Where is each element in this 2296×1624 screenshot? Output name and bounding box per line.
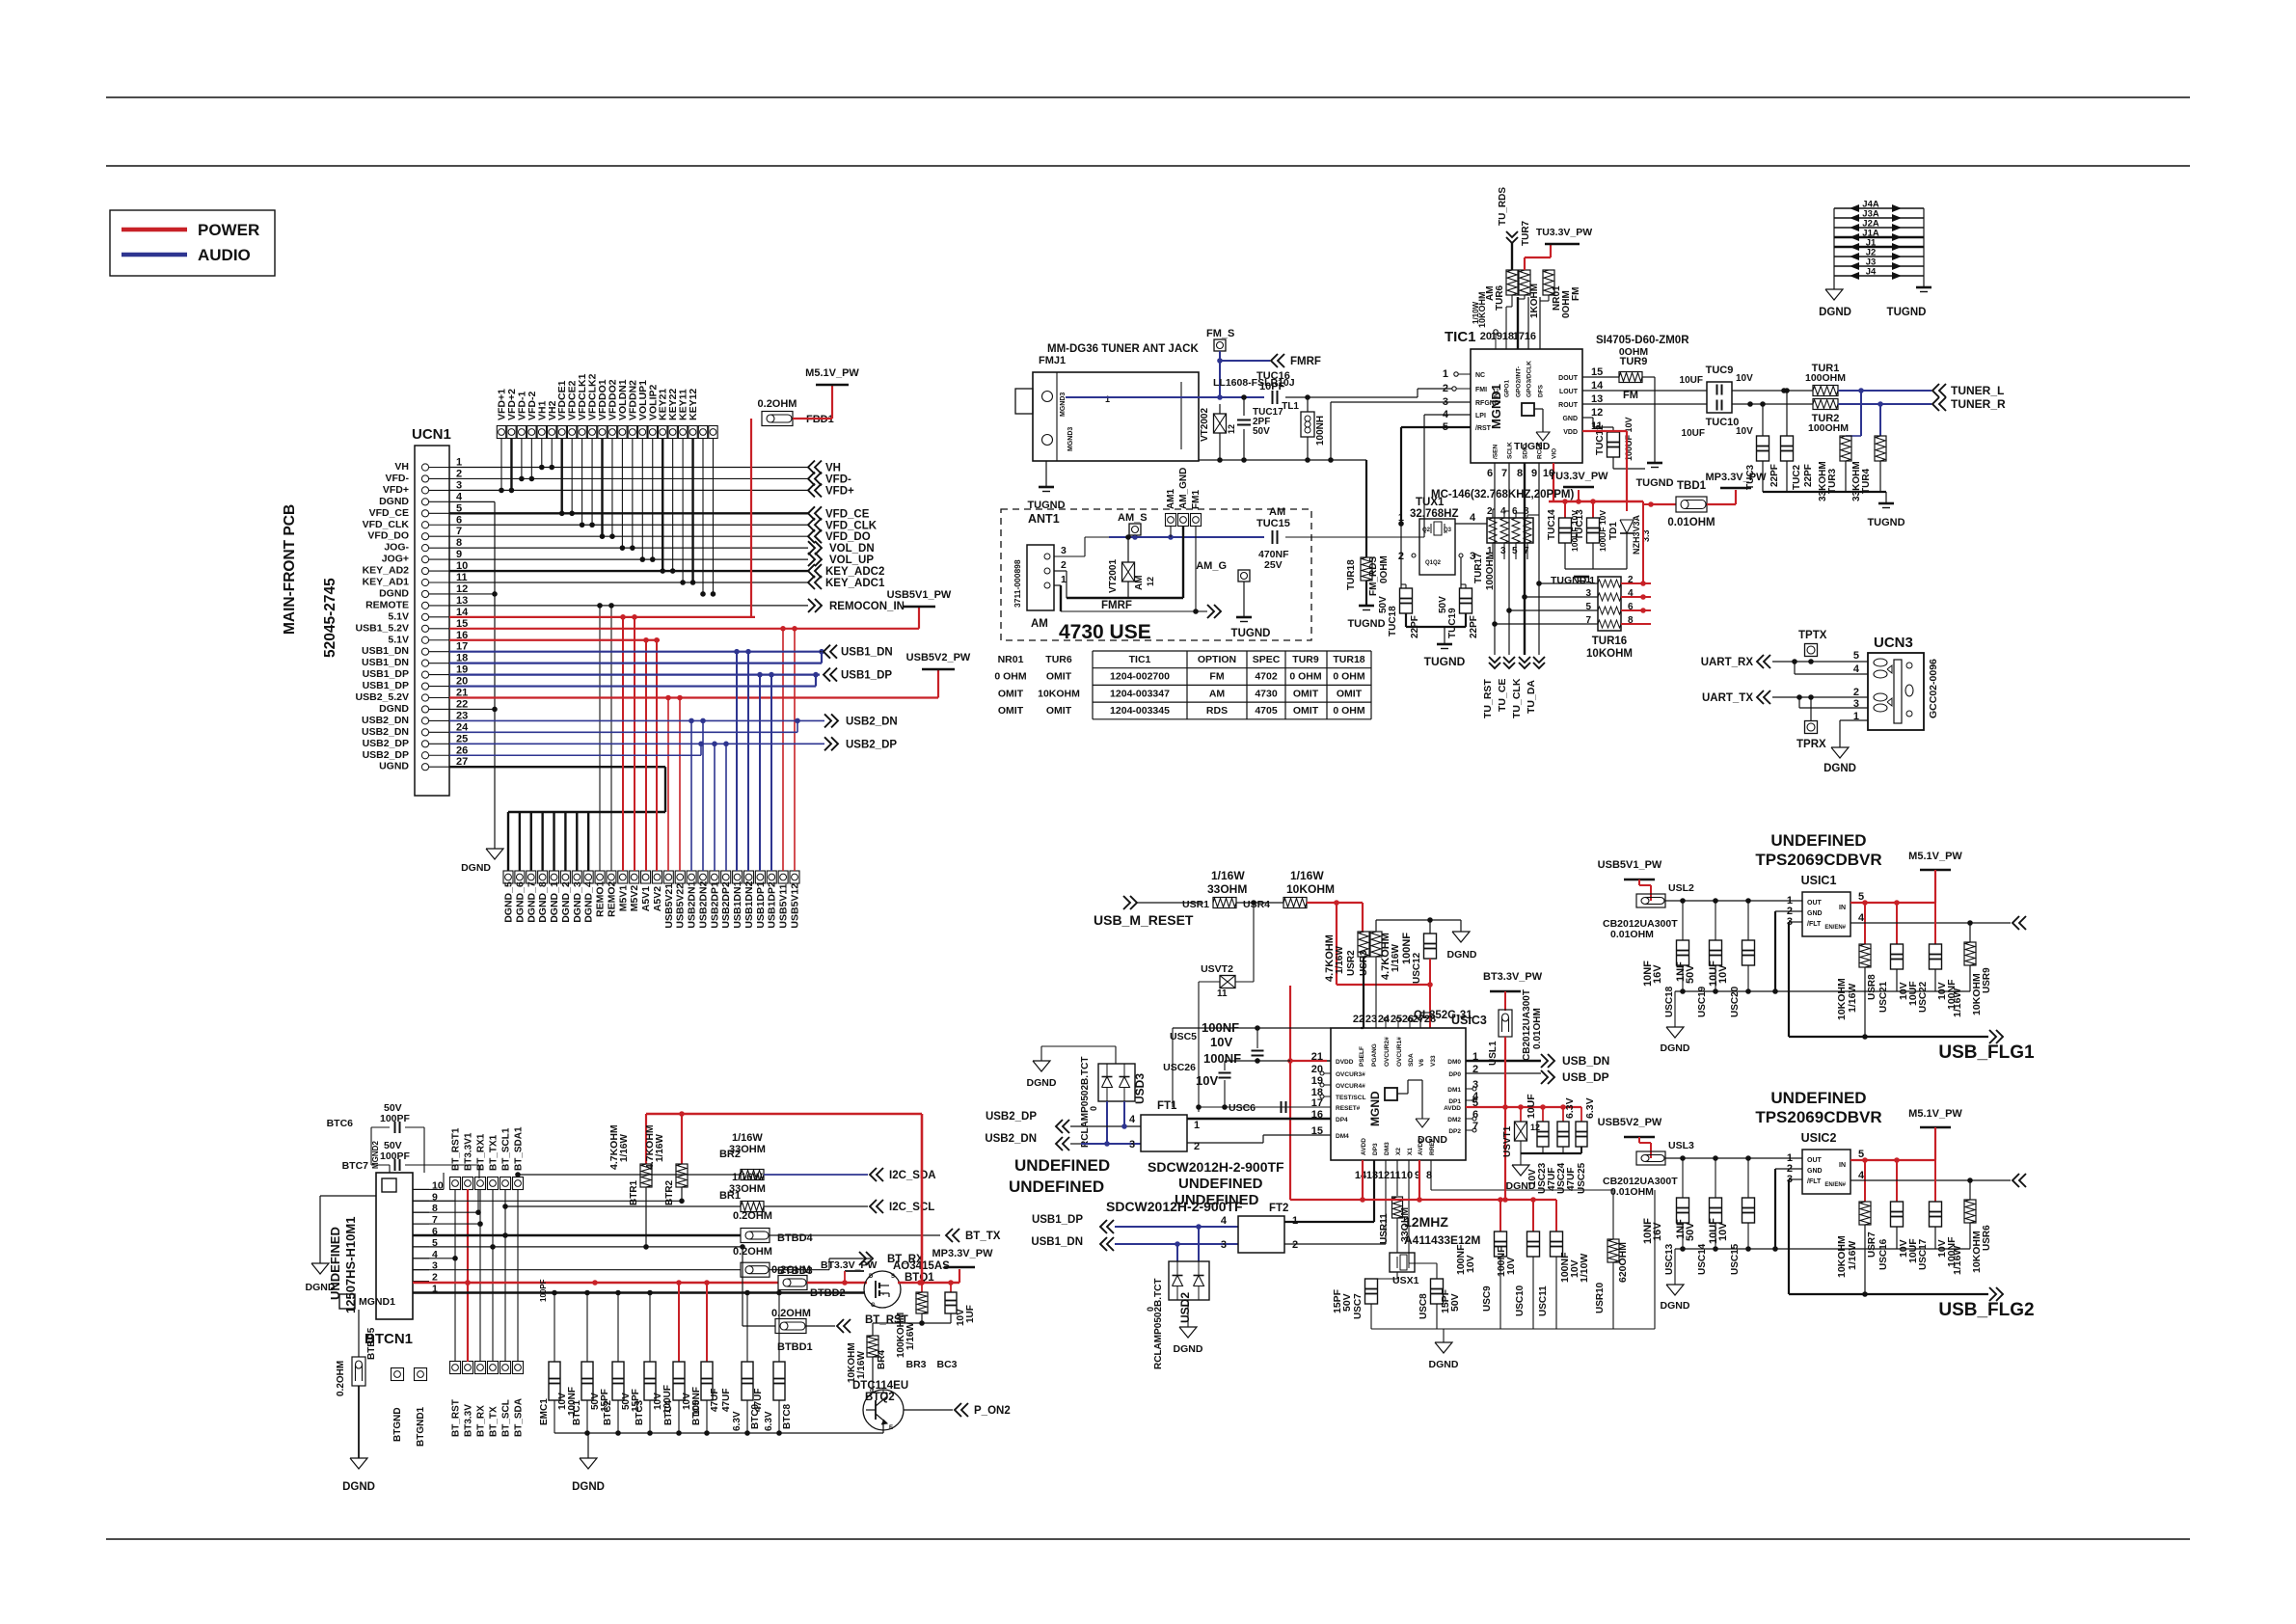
svg-text:DM4: DM4 <box>1336 1133 1349 1140</box>
ground rail USIC1 <box>1675 990 1970 992</box>
capacitor EMC1 <box>549 1362 560 1400</box>
svg-text:100PF: 100PF <box>380 1150 411 1162</box>
svg-text:AM: AM <box>1031 618 1048 630</box>
diode USVT1 <box>1520 1107 1522 1122</box>
svg-text:TUGND: TUGND <box>1867 517 1904 528</box>
power wire USR4 to USR2/3 <box>1307 902 1363 904</box>
capacitor USC10 100NF 10V <box>1527 1232 1540 1257</box>
svg-text:2: 2 <box>1487 506 1493 517</box>
svg-text:MM-DG36 TUNER ANT JACK: MM-DG36 TUNER ANT JACK <box>1047 343 1199 355</box>
junctions BT columns <box>452 1256 458 1261</box>
svg-text:100NF: 100NF <box>1401 933 1413 964</box>
top pin header row of UCN1 fan-out <box>497 426 505 439</box>
ground DGND bt rail <box>587 1433 589 1458</box>
wires top header to UCN1 rows <box>500 439 502 491</box>
svg-text:1UF: 1UF <box>965 1305 976 1323</box>
IC USIC1 body <box>1802 892 1850 936</box>
svg-text:DP0: DP0 <box>1448 1071 1461 1078</box>
svg-text:MAIN-FRONT PCB: MAIN-FRONT PCB <box>282 504 298 635</box>
svg-text:UCN1: UCN1 <box>412 426 451 443</box>
IC TIC1 SI4705 body <box>1471 349 1582 463</box>
J4A left rail to DGND <box>1833 208 1835 289</box>
svg-text:3: 3 <box>1129 1139 1135 1150</box>
svg-text:USIC2: USIC2 <box>1801 1131 1837 1145</box>
svg-text:4.7KOHM: 4.7KOHM <box>1324 934 1336 982</box>
capacitor USC12 100NF <box>1424 934 1437 959</box>
svg-text:1/16W: 1/16W <box>856 1351 867 1379</box>
svg-text:AVDD: AVDD <box>1444 1105 1461 1112</box>
option table grid <box>1093 650 1371 652</box>
svg-text:KEY12: KEY12 <box>688 389 699 420</box>
svg-text:BT_SDA1: BT_SDA1 <box>514 1126 525 1171</box>
wire ROUT to TUC10 <box>1582 403 1707 405</box>
svg-text:I2C_SCL: I2C_SCL <box>889 1202 934 1213</box>
wire BTCN1 pin5 row <box>413 1246 743 1248</box>
svg-text:BT_SCL: BT_SCL <box>501 1399 512 1437</box>
UCN1 pin circles <box>421 464 428 471</box>
audio stub to TUR4 <box>1879 404 1881 436</box>
svg-text:USB2DP2: USB2DP2 <box>720 881 732 929</box>
svg-text:OVCUR4#: OVCUR4# <box>1336 1083 1365 1090</box>
chevron KEY_ADC1 <box>808 576 815 589</box>
svg-text:AM1: AM1 <box>1166 488 1176 509</box>
red column wires USB5V11 USB5V12 <box>782 629 784 871</box>
svg-text:ROUT: ROUT <box>1558 402 1579 409</box>
svg-text:5: 5 <box>1512 546 1518 556</box>
svg-text:25V: 25V <box>1264 559 1283 571</box>
power wire BTQ1 out <box>898 1282 959 1285</box>
svg-text:Q2: Q2 <box>1422 528 1431 533</box>
wire BTCN1 pins 8,9,10 stubs <box>413 1211 478 1213</box>
svg-text:USC14: USC14 <box>1697 1243 1708 1275</box>
test pad TPTX <box>1805 644 1818 657</box>
svg-text:USIC3: USIC3 <box>1451 1014 1487 1027</box>
svg-text:SPEC: SPEC <box>1253 654 1281 665</box>
capacitor TUC14 100UF 10V <box>1564 501 1566 518</box>
svg-text:4702: 4702 <box>1255 671 1278 683</box>
svg-text:VFD_CE: VFD_CE <box>369 507 409 519</box>
svg-text:USC8: USC8 <box>1418 1293 1429 1319</box>
svg-text:VFD_CLK: VFD_CLK <box>363 519 410 530</box>
node REMOCON_IN row <box>449 605 808 607</box>
svg-text:6.3V: 6.3V <box>1564 1097 1576 1119</box>
svg-text:0.2OHM: 0.2OHM <box>771 1264 811 1276</box>
wire USD3 top to DGND <box>1115 1046 1117 1064</box>
svg-text:2: 2 <box>456 468 462 479</box>
svg-text:OPTION: OPTION <box>1198 654 1236 665</box>
transistor BTQ1 AO3415AS <box>864 1271 901 1308</box>
svg-text:USB1_DP: USB1_DP <box>363 668 409 680</box>
UCN3 internals <box>1894 660 1902 723</box>
wire USR3 top net to DGND <box>1375 920 1377 932</box>
svg-text:DGND_2: DGND_2 <box>560 881 572 923</box>
svg-text:USR7: USR7 <box>1867 1232 1877 1258</box>
svg-text:USB_DP: USB_DP <box>1562 1070 1609 1084</box>
svg-text:TIC1: TIC1 <box>1129 654 1151 665</box>
svg-text:VDD: VDD <box>1563 429 1578 436</box>
svg-text:OMIT: OMIT <box>998 688 1024 699</box>
svg-text:0 OHM: 0 OHM <box>1333 671 1365 683</box>
svg-text:USB1DN2: USB1DN2 <box>743 880 755 928</box>
power wire VDD red to bus <box>1582 430 1627 432</box>
power wire red bus to DVDD <box>1337 984 1430 986</box>
svg-text:GPO3/DCLK: GPO3/DCLK <box>1526 361 1533 397</box>
resistor TUR1 100OHM <box>1813 386 1838 396</box>
svg-text:BT_RST1: BT_RST1 <box>451 1127 462 1171</box>
svg-text:100NF: 100NF <box>1455 1244 1467 1275</box>
svg-text:USB_M_RESET: USB_M_RESET <box>1094 912 1194 928</box>
power wire USB2_5.2V row21 to USB5V2_PW <box>449 696 938 698</box>
resistor TUR4 33KOHM <box>1875 436 1886 461</box>
svg-text:10KOHM: 10KOHM <box>1038 688 1080 699</box>
capacitor TUC9 10UF 10V <box>1707 382 1732 413</box>
svg-text:BTC2: BTC2 <box>603 1399 613 1425</box>
svg-text:OVCUR2#: OVCUR2# <box>1384 1037 1391 1067</box>
svg-text:BT_TX: BT_TX <box>965 1231 1001 1242</box>
svg-text:DGND: DGND <box>379 703 409 715</box>
capacitor USC15 <box>1747 1158 1749 1198</box>
svg-text:USC19: USC19 <box>1697 986 1708 1017</box>
power wire BTBD2 to BTQ1 <box>807 1282 867 1285</box>
ground rail USIC2 <box>1675 1248 1970 1250</box>
svg-text:BTR2: BTR2 <box>664 1179 675 1205</box>
svg-text:EN/EN#: EN/EN# <box>1824 925 1846 931</box>
UCN1 signal rows to chevrons <box>449 467 808 469</box>
svg-text:UGND: UGND <box>379 761 409 772</box>
wire AM_GND down <box>1182 526 1184 598</box>
svg-text:1KOHM: 1KOHM <box>1529 284 1540 318</box>
svg-text:USC15: USC15 <box>1730 1243 1741 1275</box>
svg-text:USX1: USX1 <box>1392 1275 1419 1286</box>
power long red to BTR resistors <box>646 1113 922 1116</box>
svg-text:0.2OHM: 0.2OHM <box>758 398 797 410</box>
svg-text:USVT2: USVT2 <box>1201 963 1233 975</box>
svg-text:OMIT: OMIT <box>1337 688 1363 699</box>
red column wires A5V1 A5V2 <box>645 640 647 871</box>
svg-text:10V: 10V <box>1196 1073 1218 1088</box>
capacitor TUC17 2PF 50V <box>1243 397 1245 416</box>
crystal TUX1 body <box>1419 519 1455 575</box>
wire USR2 bottom to pin22 <box>1363 957 1364 1028</box>
svg-text:1/16W: 1/16W <box>619 1134 630 1162</box>
BTCN1 pins <box>413 1292 429 1294</box>
svg-text:TU_CE: TU_CE <box>1497 679 1508 712</box>
svg-text:1/16W: 1/16W <box>732 1132 763 1144</box>
svg-text:BTC1: BTC1 <box>572 1399 582 1425</box>
svg-text:TL1: TL1 <box>1282 401 1299 412</box>
svg-text:OMIT: OMIT <box>1293 705 1319 717</box>
capacitor TUC16 10PF <box>1272 391 1274 404</box>
power riser to USB red bus <box>921 1114 924 1283</box>
svg-text:3711-000898: 3711-000898 <box>1013 559 1022 608</box>
svg-text:10NF: 10NF <box>1642 961 1654 987</box>
svg-text:4: 4 <box>1470 512 1476 524</box>
chevron VFD- <box>808 472 815 485</box>
svg-text:11: 11 <box>456 572 468 583</box>
capacitor USC22 100NF <box>1934 903 1936 944</box>
svg-text:USC5: USC5 <box>1170 1031 1197 1042</box>
svg-text:4: 4 <box>1858 1170 1865 1181</box>
resistor TUR7 above TIC1 <box>1519 270 1530 295</box>
border bottom line <box>106 1538 2190 1540</box>
svg-text:USB1_DP: USB1_DP <box>363 680 409 691</box>
svg-text:USR10: USR10 <box>1595 1282 1606 1313</box>
svg-text:VH: VH <box>394 461 409 473</box>
svg-text:USB_DN: USB_DN <box>1562 1054 1609 1068</box>
svg-text:0: 0 <box>1146 1307 1155 1312</box>
svg-text:12MHZ: 12MHZ <box>1404 1214 1448 1230</box>
svg-text:TUC10: TUC10 <box>1706 417 1740 428</box>
svg-text:23: 23 <box>1365 1014 1377 1025</box>
svg-text:EMC1: EMC1 <box>539 1398 550 1425</box>
wire pin8 RREF down to bias net <box>1430 1160 1432 1190</box>
wire GND USIC2 to rail <box>1775 1168 1802 1170</box>
svg-text:TPRX: TPRX <box>1796 739 1826 750</box>
svg-text:DP4: DP4 <box>1336 1117 1348 1123</box>
dashed option box 4730 USE <box>1001 509 1311 640</box>
svg-text:1/16W: 1/16W <box>1847 984 1858 1013</box>
wire BT_TX row pin6 <box>413 1234 741 1236</box>
svg-text:19: 19 <box>1311 1075 1323 1087</box>
svg-text:UART_TX: UART_TX <box>1702 692 1753 704</box>
wire TU_RDS chevron <box>1511 243 1513 270</box>
svg-text:1204-003347: 1204-003347 <box>1110 688 1170 699</box>
svg-text:M5.1V_PW: M5.1V_PW <box>805 367 859 379</box>
svg-text:USB5V11: USB5V11 <box>778 883 790 928</box>
svg-text:BTR1: BTR1 <box>629 1179 639 1205</box>
resistor NR01 above TIC1 <box>1543 270 1554 295</box>
svg-text:LOUT: LOUT <box>1559 389 1579 395</box>
svg-text:J4: J4 <box>1866 267 1877 278</box>
svg-text:MGND: MGND <box>1368 1091 1382 1126</box>
svg-text:100NH: 100NH <box>1315 416 1326 446</box>
diode VT2002 <box>1219 404 1221 414</box>
svg-text:SDA: SDA <box>1408 1053 1415 1067</box>
svg-text:33OHM: 33OHM <box>729 1183 766 1195</box>
resistors BTR1 BTR2 4.7KOHM <box>645 1114 647 1164</box>
inductor TL1 100NH <box>1307 397 1309 412</box>
wire DM4 row from FT1 <box>1204 1142 1263 1144</box>
svg-text:10KOHM: 10KOHM <box>1586 648 1633 660</box>
blue column wires USB2DP1/2 <box>714 744 716 871</box>
resistor TUR2 100OHM <box>1813 399 1838 410</box>
svg-text:RDS: RDS <box>1206 705 1228 717</box>
audio wire FM line jack to TUC16 <box>1066 396 1264 398</box>
wire DGND drop USIC1 <box>1674 991 1676 1027</box>
svg-text:2: 2 <box>1853 687 1859 698</box>
svg-text:D: D <box>869 1274 874 1280</box>
svg-text:BTBD4: BTBD4 <box>777 1232 814 1244</box>
svg-text:10NF: 10NF <box>1642 1218 1654 1244</box>
audio wire TUNER_L <box>1838 390 1931 392</box>
wire BT I2C_SCL row <box>505 1205 741 1207</box>
svg-text:33OHM: 33OHM <box>1207 882 1247 896</box>
svg-text:X1: X1 <box>1407 1148 1414 1155</box>
svg-text:10V: 10V <box>1736 373 1753 384</box>
svg-text:USB_FLG2: USB_FLG2 <box>1938 1300 2034 1320</box>
svg-text:47UF: 47UF <box>1566 1168 1577 1191</box>
crystal USX1 12MHZ <box>1390 1253 1415 1272</box>
svg-text:TUGND: TUGND <box>1424 655 1466 668</box>
svg-text:MGND3: MGND3 <box>1060 392 1067 417</box>
svg-text:47UF: 47UF <box>753 1389 764 1412</box>
svg-text:USC18: USC18 <box>1664 986 1675 1017</box>
DGND collector wire of UCN1 <box>449 501 495 502</box>
svg-text:BTQ2: BTQ2 <box>865 1392 895 1403</box>
svg-text:1204-003345: 1204-003345 <box>1110 705 1170 717</box>
svg-text:11: 11 <box>1217 988 1228 999</box>
svg-text:USD3: USD3 <box>1133 1073 1147 1104</box>
svg-text:VH: VH <box>825 463 841 474</box>
legend AUDIO wire sample <box>122 253 187 257</box>
test pads AM1 AM_GND FM1 <box>1166 514 1176 527</box>
power wire AVDD red <box>1466 1106 1581 1108</box>
svg-text:10UF: 10UF <box>1708 1218 1719 1244</box>
svg-text:VFD-: VFD- <box>825 474 851 485</box>
svg-text:0.2OHM: 0.2OHM <box>336 1361 346 1396</box>
svg-text:USL3: USL3 <box>1668 1140 1694 1151</box>
bt ground rail <box>554 1432 883 1434</box>
wire UART_TX <box>1757 690 1764 704</box>
ground DGND under UCN1 <box>486 849 503 859</box>
svg-text:6.3V: 6.3V <box>764 1411 774 1431</box>
svg-text:100UF 10V: 100UF 10V <box>1598 510 1607 552</box>
resistor USR8 10KOHM <box>1859 944 1871 967</box>
svg-text:1NF: 1NF <box>1675 1219 1687 1239</box>
svg-text:USVT1: USVT1 <box>1502 1125 1513 1157</box>
svg-text:4705: 4705 <box>1255 705 1278 717</box>
svg-text:JOG-: JOG- <box>384 542 409 554</box>
svg-text:DGND_4: DGND_4 <box>583 881 595 923</box>
capacitor TUC12 100UF 10V <box>1607 432 1620 457</box>
svg-text:4: 4 <box>1853 663 1860 675</box>
svg-text:UNDEFINED: UNDEFINED <box>1770 831 1866 850</box>
resistor BR2 33OHM <box>741 1170 764 1180</box>
capacitor TUC2 22PF <box>1786 391 1788 436</box>
svg-text:AM_S: AM_S <box>1118 512 1148 524</box>
svg-text:50V: 50V <box>1449 1293 1461 1312</box>
svg-text:GND: GND <box>1807 1168 1823 1175</box>
svg-text:TU_DA: TU_DA <box>1526 680 1537 714</box>
TIC1 bottom stubs <box>1494 463 1496 655</box>
svg-text:USB1_5.2V: USB1_5.2V <box>356 622 409 634</box>
svg-text:BT_SCL1: BT_SCL1 <box>501 1127 512 1171</box>
svg-text:I2C_SDA: I2C_SDA <box>889 1170 936 1181</box>
bottom pin header row of UCN1 fan-out <box>503 871 513 883</box>
wire BT I2C_SDA row <box>518 1174 741 1176</box>
svg-text:USB5V21: USB5V21 <box>663 883 675 929</box>
svg-text:KEY_AD1: KEY_AD1 <box>363 577 410 588</box>
svg-text:7: 7 <box>1524 546 1529 556</box>
svg-text:UART_RX: UART_RX <box>1701 657 1754 668</box>
BTCN1 MGND2 pad <box>382 1178 396 1192</box>
svg-text:VT2002: VT2002 <box>1200 408 1210 442</box>
wire pin10 X1 down <box>1408 1160 1410 1263</box>
svg-text:PGANG: PGANG <box>1371 1043 1378 1067</box>
svg-text:USL2: USL2 <box>1668 882 1694 894</box>
blue column wires USB1DP1/2 <box>759 675 761 871</box>
wire UCN3 pin4 <box>1794 662 1796 674</box>
svg-text:MGND1: MGND1 <box>1489 384 1503 429</box>
svg-text:Q3: Q3 <box>1444 528 1452 533</box>
capacitor BTC5 <box>701 1362 713 1400</box>
wire USB_DP out <box>1466 1072 1541 1074</box>
capacitor USC17 100NF <box>1934 1160 1936 1202</box>
svg-text:BT_RX1: BT_RX1 <box>476 1133 487 1171</box>
svg-text:TU3.3V_PW: TU3.3V_PW <box>1549 471 1608 482</box>
svg-text:USB2_DP: USB2_DP <box>363 749 409 761</box>
svg-text:V6: V6 <box>1418 1059 1425 1067</box>
ground TUGND under crystal caps <box>1406 626 1466 628</box>
svg-text:USR11: USR11 <box>1379 1213 1390 1244</box>
svg-text:6: 6 <box>1512 506 1518 517</box>
border top line 2 <box>106 165 2190 167</box>
svg-text:6.3V: 6.3V <box>1584 1097 1596 1119</box>
svg-text:DGND: DGND <box>1661 1300 1690 1312</box>
resistor BR1 33OHM <box>741 1202 764 1212</box>
svg-text:620OHM: 620OHM <box>1617 1242 1629 1283</box>
wire DP4 row from FT1 <box>1204 1118 1331 1120</box>
chevron KEY_ADC2 <box>808 564 815 578</box>
svg-text:M5V2: M5V2 <box>629 885 640 912</box>
svg-text:52045-2745: 52045-2745 <box>322 578 338 658</box>
capacitor BC3 1UF <box>950 1283 952 1292</box>
svg-text:TUR18: TUR18 <box>1333 654 1364 665</box>
svg-text:USC25: USC25 <box>1577 1162 1587 1194</box>
svg-text:BTC6: BTC6 <box>327 1118 354 1129</box>
svg-text:USIC1: USIC1 <box>1801 874 1837 887</box>
svg-text:BTBD5: BTBD5 <box>366 1327 377 1360</box>
test pad FM_S <box>1214 339 1226 351</box>
svg-text:TUGND: TUGND <box>1635 477 1673 489</box>
ferrite TBD1 0.01OHM <box>1651 503 1676 505</box>
svg-text:RCLAMP0502B.TCT: RCLAMP0502B.TCT <box>1080 1057 1091 1148</box>
IC USIC3 body QL852G-31 <box>1331 1028 1466 1160</box>
svg-text:DGND: DGND <box>379 587 409 599</box>
svg-text:BTGND1: BTGND1 <box>416 1406 426 1447</box>
svg-text:BT3.3V_PW: BT3.3V_PW <box>1483 971 1543 983</box>
svg-text:0.01OHM: 0.01OHM <box>1532 1008 1543 1049</box>
svg-text:OMIT: OMIT <box>1293 688 1319 699</box>
wire RFGND to TIC1 <box>1330 402 1332 460</box>
svg-text:A5V1: A5V1 <box>640 886 652 911</box>
chevron VH <box>808 461 815 474</box>
svg-text:BTC7: BTC7 <box>342 1160 369 1172</box>
capacitor USC14 <box>1715 1158 1716 1198</box>
svg-text:DGND: DGND <box>1823 763 1856 774</box>
svg-text:G: G <box>871 1303 876 1309</box>
wire pin1 gnd row bt <box>413 1291 865 1293</box>
svg-text:3: 3 <box>1472 1079 1478 1091</box>
svg-text:SDCW2012H-2-900TF: SDCW2012H-2-900TF <box>1148 1159 1284 1175</box>
svg-text:DGND: DGND <box>342 1481 375 1493</box>
capacitor USC9 100NF 10V <box>1495 1232 1507 1257</box>
resistor USR11 33OHM on X2 <box>1396 1160 1398 1196</box>
svg-text:USD2: USD2 <box>1178 1292 1192 1323</box>
wire /RST to crystal <box>1401 426 1471 428</box>
svg-text:TUC13: TUC13 <box>1575 509 1585 540</box>
svg-text:12: 12 <box>456 583 468 595</box>
wire EN net USIC2 <box>1850 1179 2011 1181</box>
test pad AM_S <box>1129 524 1141 535</box>
svg-text:11: 11 <box>1390 1170 1401 1181</box>
svg-text:TUR3: TUR3 <box>1827 468 1838 494</box>
svg-text:TUR7: TUR7 <box>1521 220 1531 246</box>
svg-text:BT3.3V1: BT3.3V1 <box>464 1132 474 1171</box>
capacitor TUC3 22PF <box>1762 404 1764 436</box>
svg-text:NZH3V3A: NZH3V3A <box>1632 514 1641 555</box>
svg-text:MGND3: MGND3 <box>1067 427 1074 451</box>
